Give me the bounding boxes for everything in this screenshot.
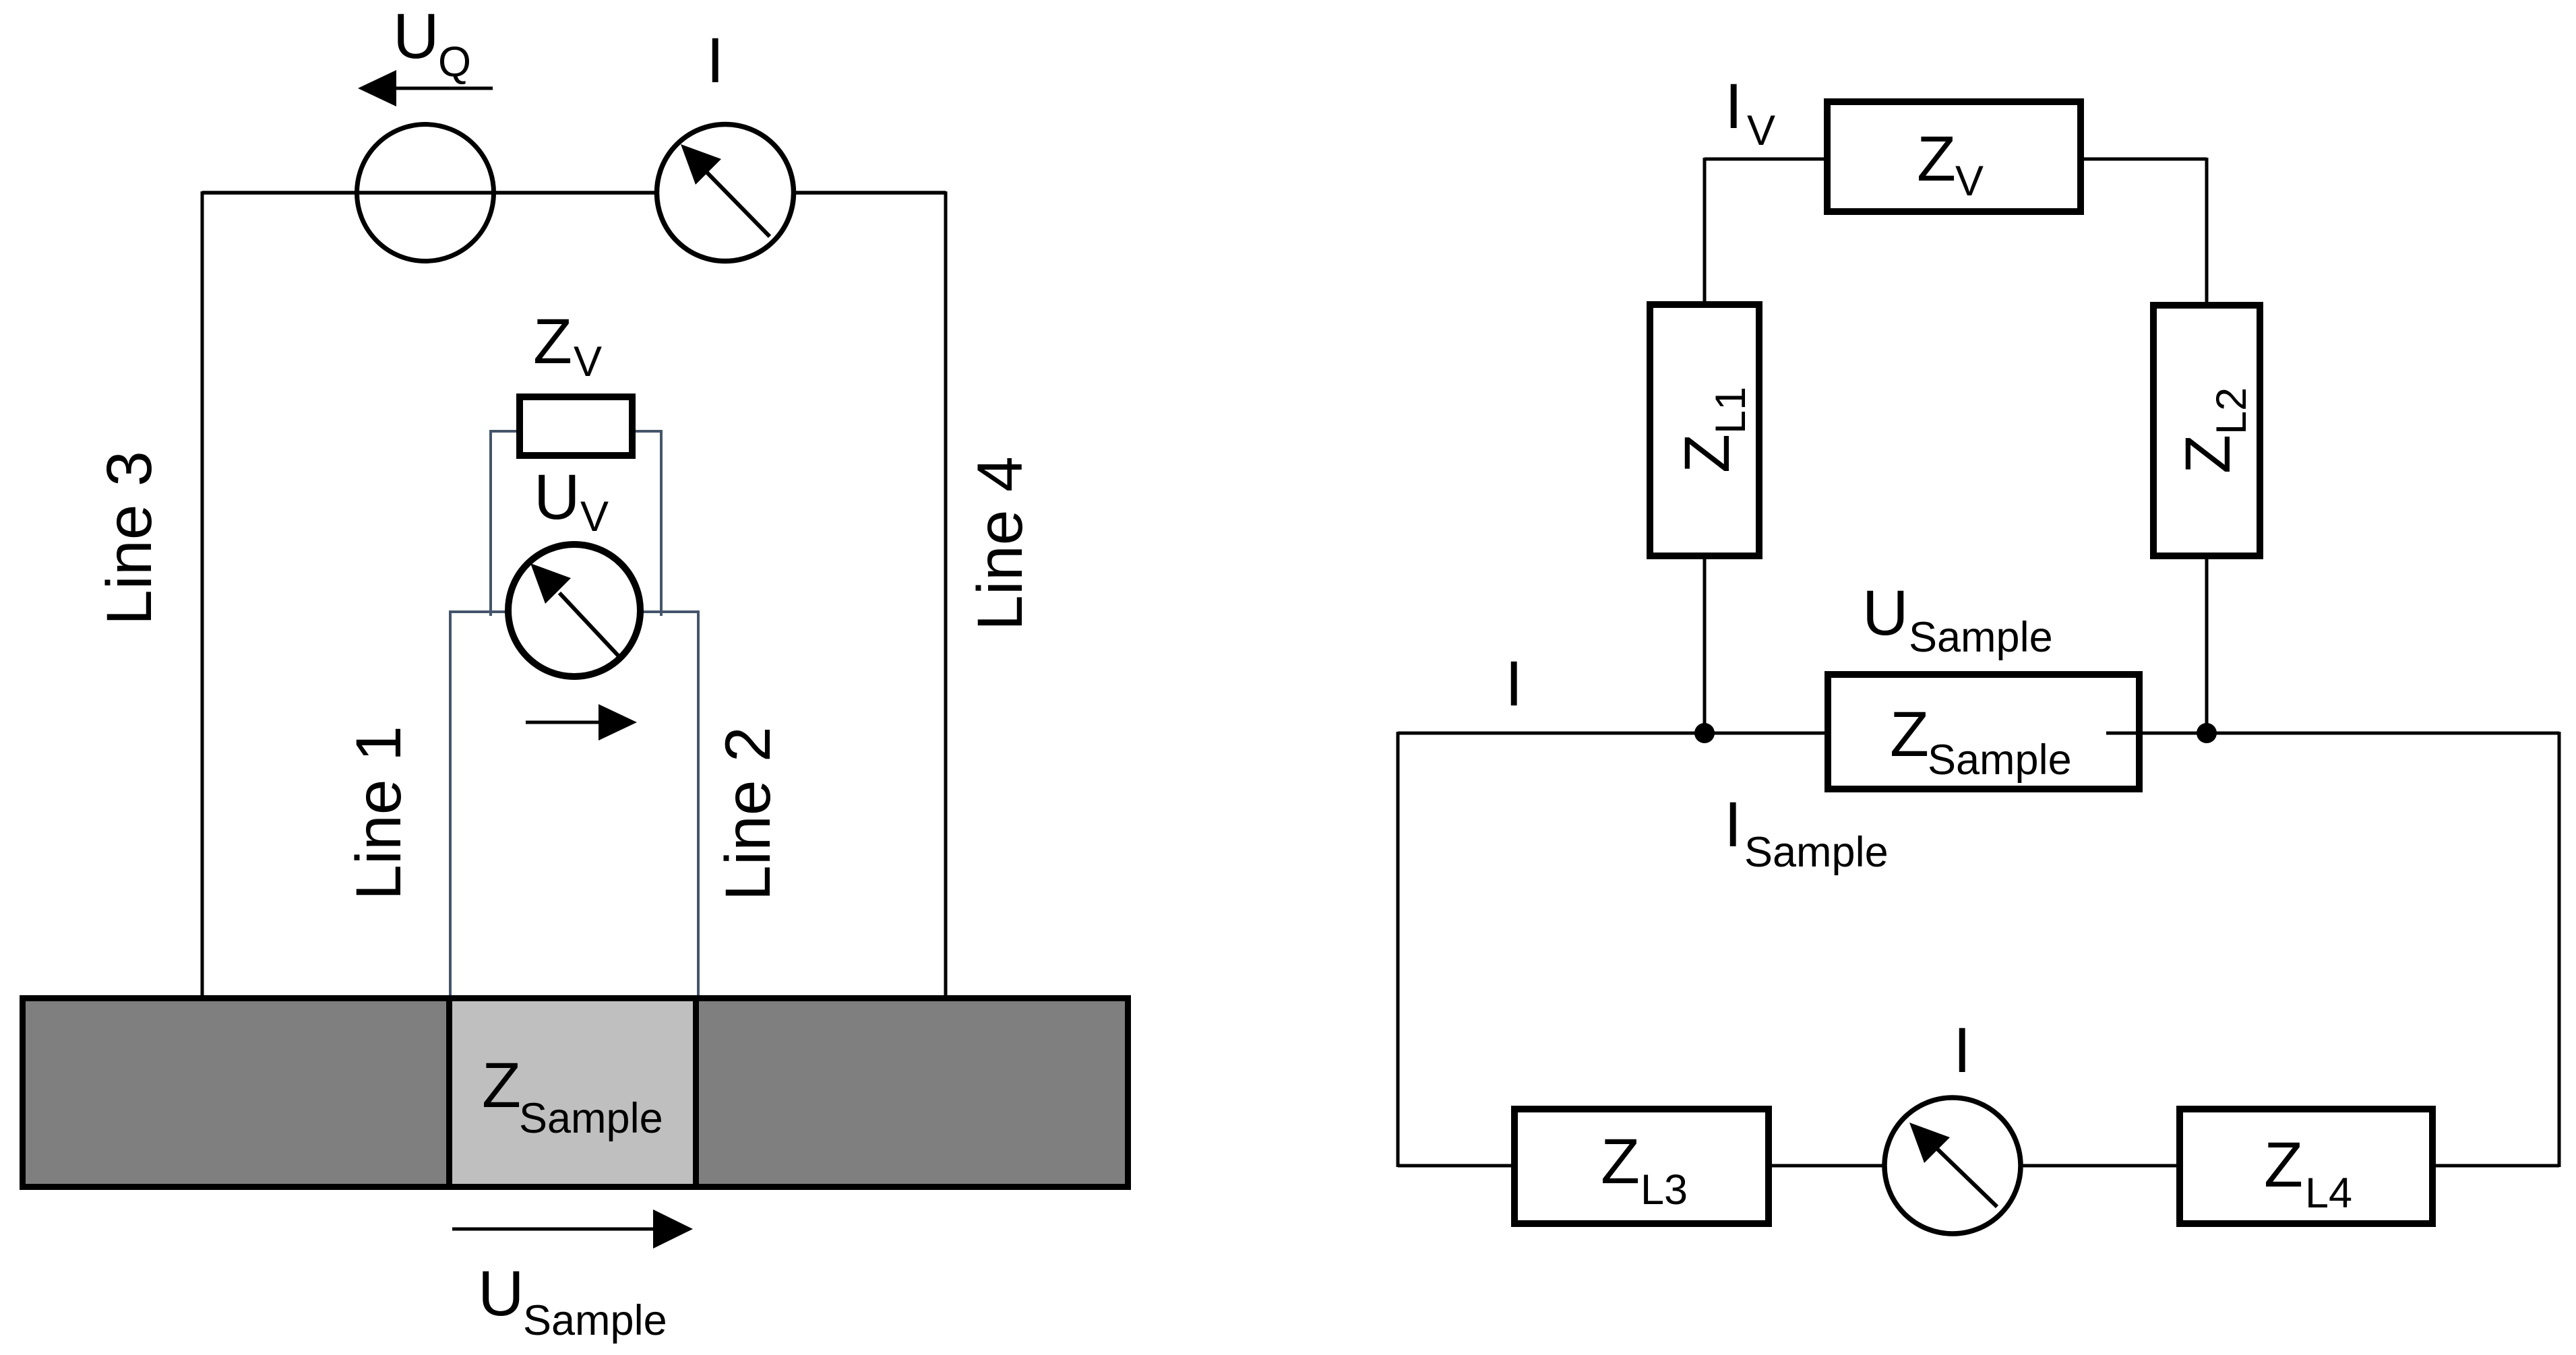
wire Line 2 vertical [697,612,700,997]
resistor Z_L4 [2180,1109,2432,1224]
svg-text:L4: L4 [2305,1170,2352,1217]
arrow U_Sample [452,1209,693,1249]
label U_Sample right [1862,577,2053,661]
svg-text:Z: Z [1601,1126,1640,1197]
label U_V [534,462,609,540]
svg-text:Sample: Sample [1928,736,2072,784]
svg-text:Line 4: Line 4 [964,456,1036,631]
svg-text:Z: Z [1917,123,1956,195]
svg-text:Sample: Sample [1744,829,1889,876]
wire bottom left segment [1398,1164,1513,1168]
label I_Sample [1724,789,1889,876]
label U_Q [393,1,471,86]
svg-text:Sample: Sample [523,1297,667,1344]
ammeter I bottom [1884,1098,2021,1234]
wire Z_L2 bottom lead [2205,558,2209,733]
wire right loop vertical [2558,732,2561,1167]
svg-text:I: I [1505,648,1523,720]
sample Z_Sample section [450,999,696,1187]
voltage source U_Q [357,125,494,261]
wire Line 4 vertical [944,191,948,997]
wire left loop vertical [1397,732,1400,1167]
resistor Z_Sample right schematic [1828,674,2139,789]
wire middle horizontal right [2137,732,2559,735]
wire Line 3 vertical [201,191,204,997]
wire Z_V left lead [491,430,516,433]
svg-text:V: V [580,493,609,540]
svg-text:Sample: Sample [1909,614,2053,661]
sample bar body [23,999,1128,1187]
svg-text:Z: Z [482,1050,521,1121]
svg-text:V: V [1747,107,1775,154]
svg-text:I: I [1953,1015,1971,1086]
wire Z_L4 to right loop [2434,1164,2559,1168]
wire from Z_V down to Z_L2 [2205,158,2209,303]
svg-text:Line 3: Line 3 [94,451,165,625]
node wires Line 1 / Line 2 thin network [449,430,700,997]
label Z_Sample bar [482,1050,663,1142]
node junction dot left [1694,723,1715,743]
resistor Z_V left schematic [520,397,632,455]
wire Z_V right schematic right lead [2084,158,2207,161]
svg-text:Q: Q [438,38,471,86]
svg-text:U: U [534,462,580,533]
resistor Z_L2 [2153,305,2260,556]
label Z_V left [533,306,602,385]
resistor Z_L3 [1514,1109,1769,1224]
svg-text:Line 1: Line 1 [343,726,415,900]
label Z_L4 [2264,1129,2352,1217]
wire Z_L1 bottom lead [1703,558,1707,733]
wire middle horizontal left [1398,732,1827,735]
arrow U_Q direction [358,70,493,106]
wire inner left vertical [489,430,492,616]
wire Z_V right schematic left lead [1705,158,1824,161]
label Z_V right [1917,123,1984,205]
svg-text:Z: Z [1890,699,1929,770]
wire junction right horizontal [641,610,700,613]
svg-text:Z: Z [2264,1129,2303,1201]
wire Line 1 vertical [449,612,452,997]
wire from Z_V down to Z_L1 [1703,158,1707,303]
svg-text:L3: L3 [1640,1166,1688,1214]
svg-text:Line 2: Line 2 [712,726,784,901]
svg-text:I: I [1725,71,1742,142]
wire Z_V right lead [636,430,661,433]
wire top bus left schematic [202,191,946,195]
svg-text:U: U [393,1,439,72]
svg-text:Z: Z [533,306,572,377]
svg-text:V: V [1955,158,1984,205]
svg-text:U: U [478,1258,524,1329]
resistor Z_V right schematic [1827,102,2081,212]
arrow I_V small right [526,704,637,740]
wire ammeter to Z_L4 [2021,1164,2178,1168]
svg-text:Sample: Sample [519,1095,663,1142]
label I_V [1725,71,1775,154]
svg-text:I: I [1724,789,1742,860]
resistor Z_L1 [1650,305,1759,556]
wire junction left horizontal [449,610,508,613]
label Z_Sample right [1890,699,2072,784]
svg-text:U: U [1862,577,1909,649]
ammeter I left [657,125,794,261]
wire stub inside Z_Sample [2106,732,2143,735]
node junction dot right [2197,723,2217,743]
voltmeter U_V [508,544,640,676]
label U_Sample left [478,1258,667,1344]
wire inner right vertical [660,430,663,616]
svg-text:V: V [574,338,602,385]
wire Z_L3 to ammeter [1770,1164,1884,1168]
svg-text:I: I [706,25,724,96]
label Z_L3 [1601,1126,1688,1214]
